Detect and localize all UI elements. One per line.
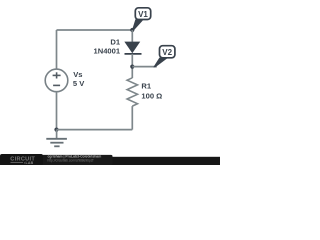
- svg-text:Vs: Vs: [73, 70, 82, 79]
- wire bottom horizontal: [57, 129, 133, 131]
- svg-text:http://circuitlab.com/c/988e96: http://circuitlab.com/c/988e96p2f: [48, 158, 94, 162]
- wire diode anode: [131, 30, 133, 43]
- node V2 junction: [130, 65, 134, 69]
- svg-text:100 Ω: 100 Ω: [141, 91, 162, 100]
- svg-text:5 V: 5 V: [73, 79, 85, 88]
- svg-text:V1: V1: [138, 10, 148, 19]
- node top junction: [130, 28, 134, 32]
- node ground junction: [54, 128, 58, 132]
- voltage source Vs: [45, 69, 68, 92]
- wire left lower vertical: [56, 91, 58, 129]
- diode D1: [125, 42, 142, 54]
- svg-text:V2: V2: [162, 48, 172, 57]
- wire top horizontal: [57, 29, 133, 31]
- ground: [46, 130, 67, 147]
- svg-text:▪LAB: ▪LAB: [24, 161, 34, 165]
- wire resistor to bottom: [131, 106, 133, 130]
- watermark bar: [0, 154, 220, 165]
- probe V1: [132, 8, 151, 31]
- logo LAB row: [11, 161, 24, 163]
- resistor R1: [127, 78, 137, 106]
- wire to V2: [132, 66, 157, 68]
- wire left vertical: [56, 30, 58, 69]
- wire diode cathode to junction: [131, 54, 133, 78]
- svg-text:R1: R1: [141, 82, 151, 91]
- svg-text:D1: D1: [110, 37, 120, 46]
- svg-text:1N4001: 1N4001: [93, 47, 120, 56]
- probe V2: [153, 46, 175, 68]
